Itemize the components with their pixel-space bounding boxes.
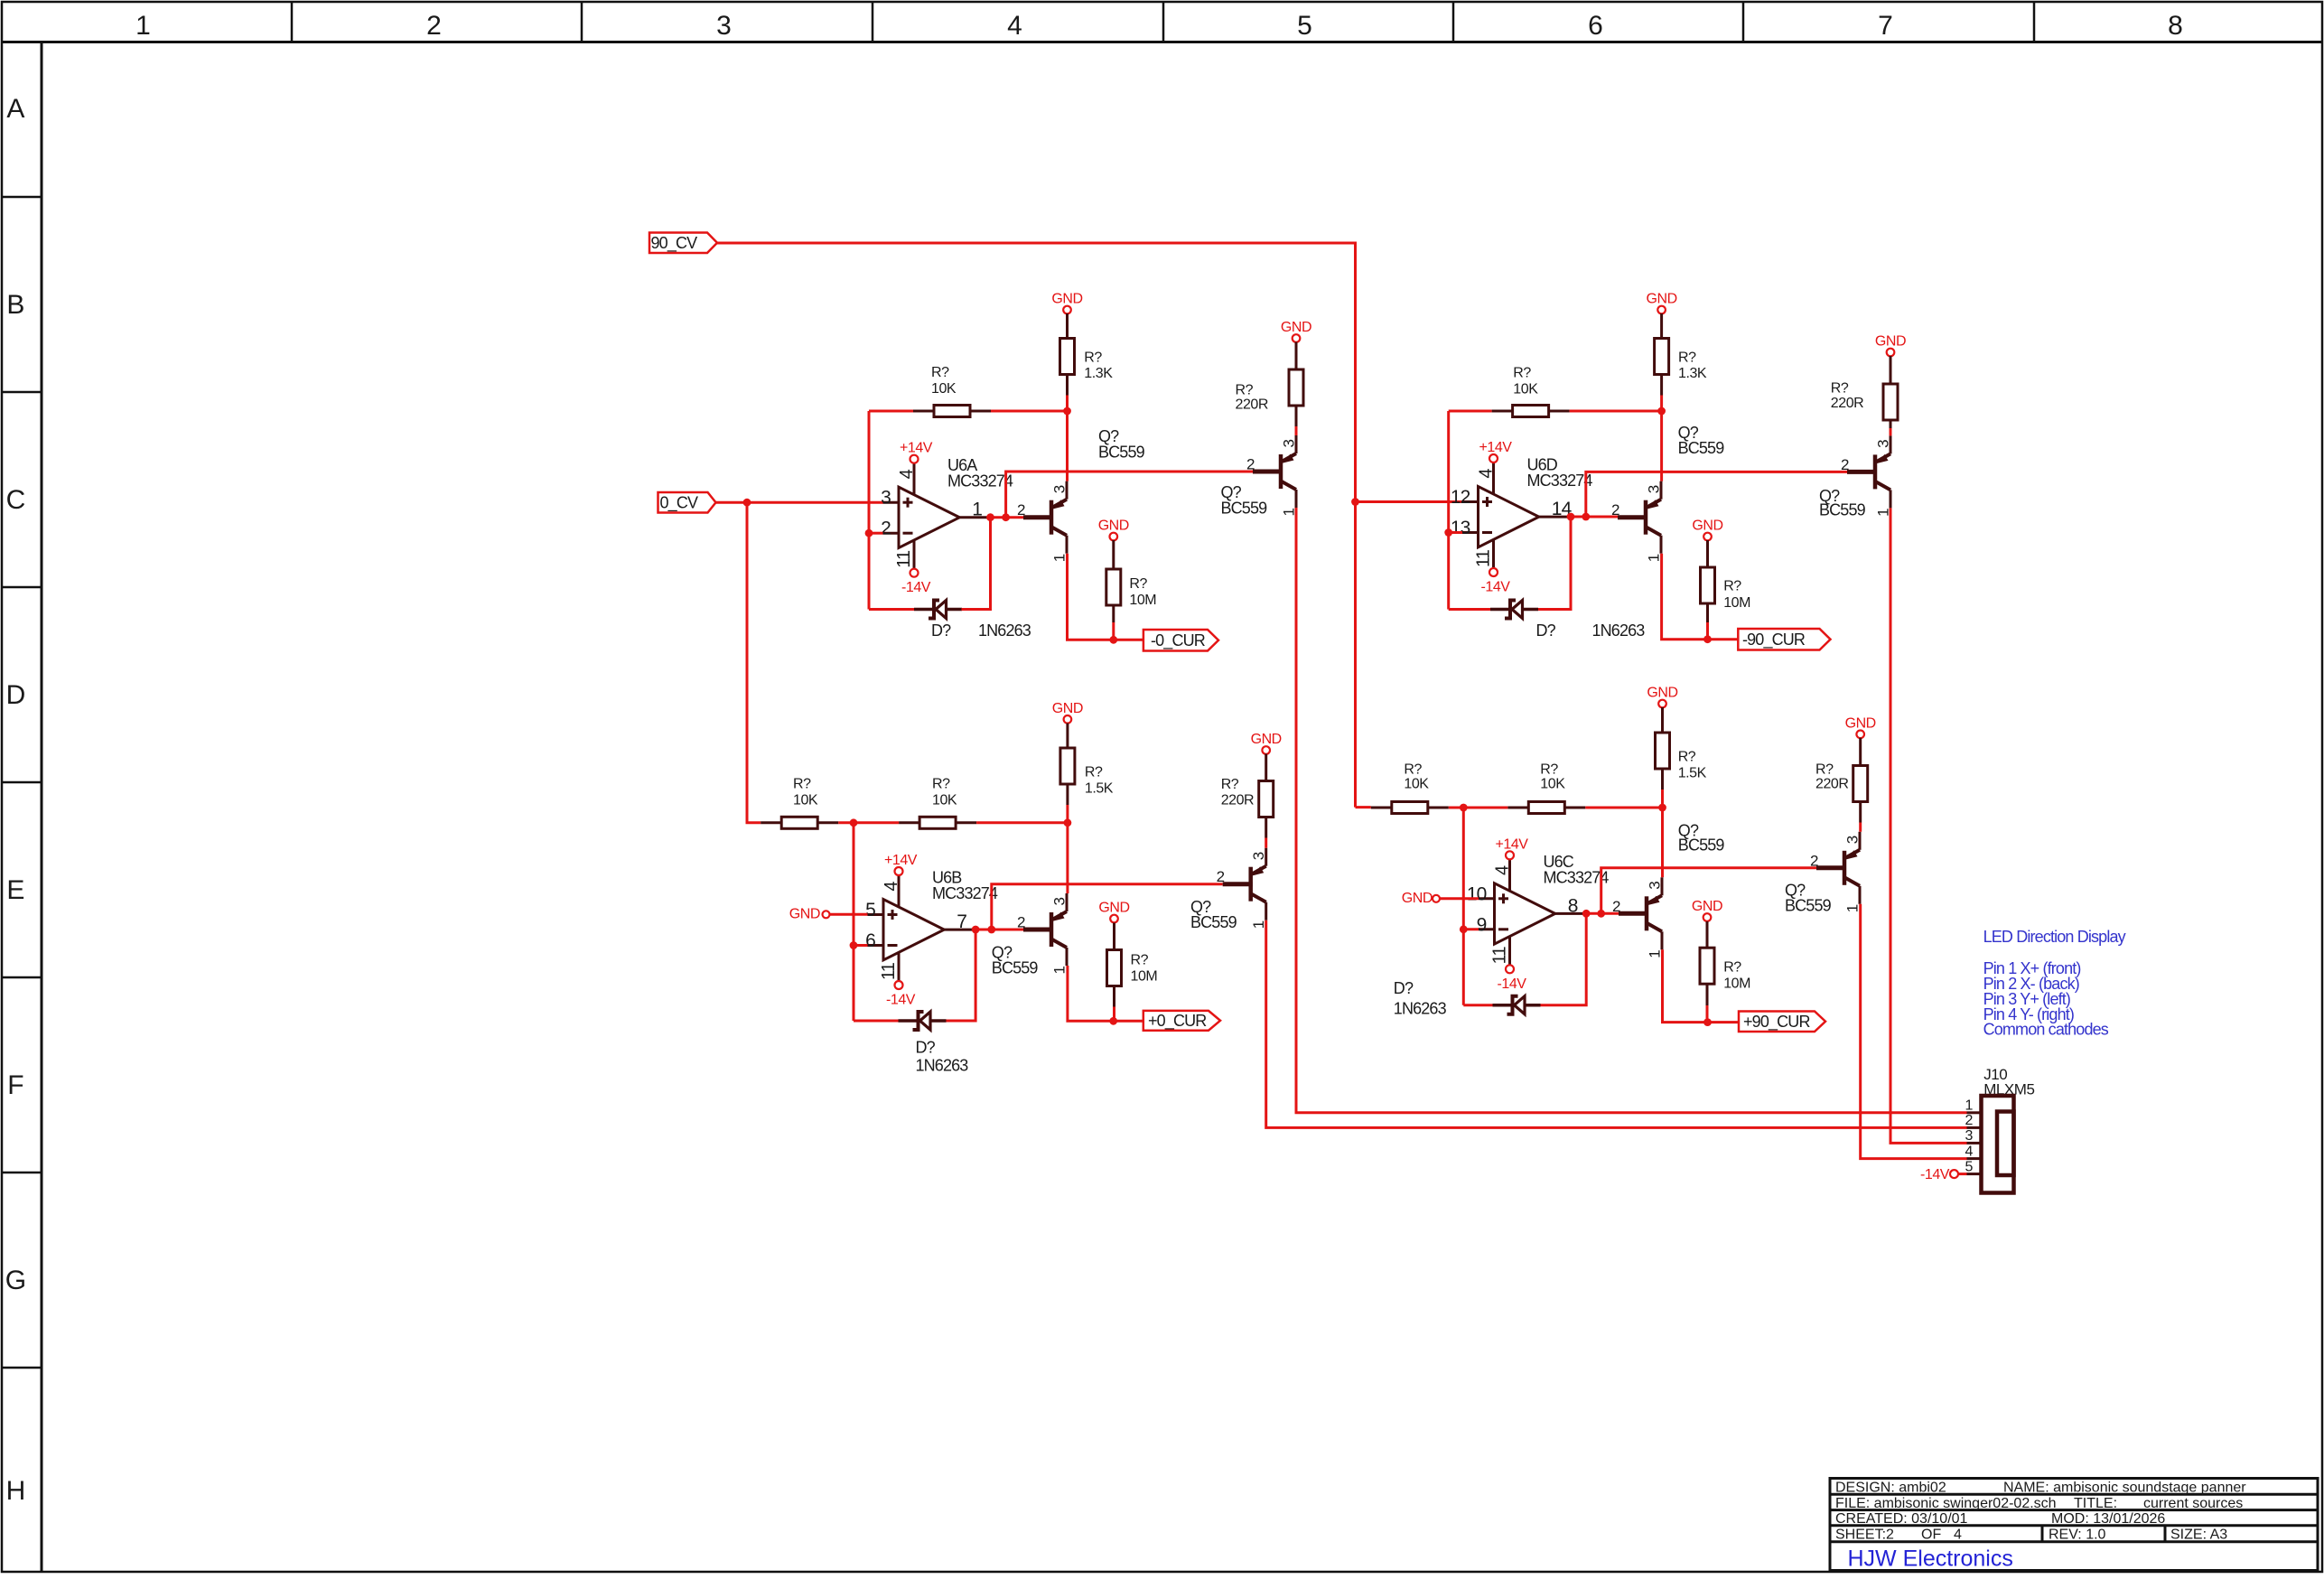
svg-text:BC559: BC559 <box>1785 897 1832 915</box>
svg-text:1: 1 <box>1647 950 1664 958</box>
svg-text:BC559: BC559 <box>1190 913 1237 931</box>
svg-text:3: 3 <box>1250 852 1267 860</box>
svg-text:R?: R? <box>1540 762 1558 778</box>
svg-text:11: 11 <box>894 550 914 568</box>
svg-text:LED Direction Display: LED Direction Display <box>1983 928 2126 946</box>
svg-text:R?: R? <box>1831 381 1849 397</box>
svg-text:220R: 220R <box>1815 777 1848 792</box>
svg-text:10M: 10M <box>1131 969 1158 985</box>
svg-text:3: 3 <box>1875 440 1892 448</box>
svg-text:3: 3 <box>1844 836 1862 844</box>
svg-text:10K: 10K <box>793 793 818 808</box>
svg-text:4: 4 <box>1965 1144 1974 1159</box>
svg-text:3: 3 <box>1647 882 1664 890</box>
svg-text:R?: R? <box>1404 762 1422 778</box>
svg-text:2: 2 <box>881 519 891 539</box>
svg-text:R?: R? <box>793 777 811 792</box>
svg-text:1: 1 <box>1051 966 1069 974</box>
svg-text:11: 11 <box>1490 947 1510 965</box>
svg-text:12: 12 <box>1451 487 1470 508</box>
svg-text:R?: R? <box>1085 765 1103 780</box>
svg-text:3: 3 <box>1646 485 1663 493</box>
svg-text:5: 5 <box>1965 1159 1974 1174</box>
svg-text:BC559: BC559 <box>1678 439 1725 457</box>
svg-text:R?: R? <box>1084 350 1102 366</box>
svg-text:10K: 10K <box>1513 382 1538 397</box>
svg-text:REV: 1.0: REV: 1.0 <box>2049 1528 2106 1543</box>
svg-text:1: 1 <box>972 500 982 520</box>
svg-text:BC559: BC559 <box>992 959 1039 977</box>
svg-text:GND: GND <box>789 907 820 922</box>
svg-text:SIZE: A3: SIZE: A3 <box>2170 1528 2227 1543</box>
svg-text:1: 1 <box>1844 904 1862 912</box>
svg-text:GND: GND <box>1251 732 1282 747</box>
svg-text:-14V: -14V <box>1498 976 1527 992</box>
svg-text:10M: 10M <box>1723 976 1750 992</box>
svg-text:R?: R? <box>1723 960 1741 976</box>
svg-text:FILE: ambisonic swinger02-02.s: FILE: ambisonic swinger02-02.sch <box>1835 1496 2057 1511</box>
svg-text:220R: 220R <box>1831 396 1863 411</box>
svg-text:R?: R? <box>1221 777 1239 792</box>
svg-text:H: H <box>6 1476 25 1506</box>
svg-text:MC33274: MC33274 <box>1527 472 1593 490</box>
svg-text:TITLE:: TITLE: <box>2074 1496 2117 1511</box>
svg-text:-14V: -14V <box>886 993 916 1008</box>
svg-text:1.3K: 1.3K <box>1084 366 1113 381</box>
svg-text:7: 7 <box>1878 11 1892 41</box>
svg-text:GND: GND <box>1098 901 1129 916</box>
svg-text:1: 1 <box>1051 554 1069 562</box>
svg-text:1: 1 <box>135 11 150 41</box>
svg-text:R?: R? <box>1513 366 1531 381</box>
svg-text:9: 9 <box>1477 914 1487 935</box>
svg-text:A: A <box>6 94 24 124</box>
svg-text:3: 3 <box>1965 1128 1974 1144</box>
svg-text:R?: R? <box>932 777 950 792</box>
svg-text:1N6263: 1N6263 <box>1592 621 1646 640</box>
svg-text:7: 7 <box>957 911 966 932</box>
svg-text:R?: R? <box>1131 953 1149 968</box>
svg-text:Common cathodes: Common cathodes <box>1983 1021 2109 1039</box>
svg-text:BC559: BC559 <box>1221 500 1268 518</box>
svg-text:220R: 220R <box>1236 397 1268 413</box>
svg-text:1: 1 <box>1965 1098 1974 1114</box>
svg-text:R?: R? <box>1815 762 1834 778</box>
svg-text:GND: GND <box>1051 292 1082 307</box>
svg-text:1N6263: 1N6263 <box>1394 1000 1447 1018</box>
svg-text:10K: 10K <box>1540 777 1565 792</box>
svg-text:2: 2 <box>426 11 441 41</box>
svg-text:2: 2 <box>1217 868 1225 885</box>
svg-text:R?: R? <box>1678 350 1696 366</box>
svg-text:1.3K: 1.3K <box>1678 366 1707 381</box>
svg-text:2: 2 <box>1017 914 1025 931</box>
svg-text:2: 2 <box>1246 456 1255 473</box>
svg-text:1: 1 <box>1646 554 1663 562</box>
svg-text:3: 3 <box>1051 485 1069 493</box>
svg-text:2: 2 <box>1611 501 1619 519</box>
svg-text:MC33274: MC33274 <box>1544 868 1610 886</box>
svg-text:C: C <box>6 485 25 515</box>
svg-text:GND: GND <box>1098 519 1129 534</box>
svg-text:220R: 220R <box>1221 793 1254 808</box>
svg-text:GND: GND <box>1845 715 1876 731</box>
svg-text:GND: GND <box>1692 519 1722 534</box>
svg-text:HJW Electronics: HJW Electronics <box>1848 1546 2013 1571</box>
svg-text:4: 4 <box>1954 1528 1962 1543</box>
svg-text:11: 11 <box>879 962 899 980</box>
svg-text:2: 2 <box>1841 456 1849 473</box>
svg-text:R?: R? <box>1723 579 1741 594</box>
svg-text:BC559: BC559 <box>1678 836 1725 855</box>
svg-text:GND: GND <box>1402 891 1433 906</box>
svg-text:3: 3 <box>881 488 891 509</box>
svg-text:GND: GND <box>1647 686 1677 701</box>
svg-text:GND: GND <box>1052 701 1083 716</box>
svg-text:4: 4 <box>1493 865 1513 875</box>
svg-text:D?: D? <box>931 621 951 640</box>
svg-text:-0_CUR: -0_CUR <box>1151 631 1206 650</box>
svg-text:+90_CUR: +90_CUR <box>1743 1013 1810 1032</box>
svg-text:10K: 10K <box>1404 777 1429 792</box>
svg-text:CREATED: 03/10/01: CREATED: 03/10/01 <box>1835 1511 1968 1527</box>
svg-text:10M: 10M <box>1129 593 1156 608</box>
svg-text:8: 8 <box>1568 895 1578 916</box>
svg-text:0_CV: 0_CV <box>660 494 698 513</box>
svg-text:+14V: +14V <box>884 853 918 868</box>
svg-text:BC559: BC559 <box>1098 444 1145 462</box>
svg-text:3: 3 <box>716 11 731 41</box>
svg-text:10K: 10K <box>931 381 957 397</box>
svg-text:MOD: 13/01/2026: MOD: 13/01/2026 <box>2051 1511 2165 1527</box>
svg-text:D?: D? <box>1394 979 1414 997</box>
svg-text:5: 5 <box>1297 11 1311 41</box>
svg-text:BC559: BC559 <box>1819 501 1866 519</box>
svg-text:+14V: +14V <box>1479 440 1512 455</box>
svg-text:R?: R? <box>1236 383 1254 398</box>
svg-text:NAME: ambisonic soundstage pa: NAME: ambisonic soundstage panner <box>2003 1481 2246 1496</box>
svg-text:-14V: -14V <box>1481 580 1511 595</box>
svg-text:5: 5 <box>865 900 875 920</box>
svg-text:D?: D? <box>916 1039 936 1057</box>
svg-text:GND: GND <box>1281 320 1311 335</box>
svg-text:MC33274: MC33274 <box>932 884 998 902</box>
svg-text:-14V: -14V <box>901 580 931 595</box>
svg-text:-14V: -14V <box>1920 1167 1950 1182</box>
svg-text:1N6263: 1N6263 <box>916 1057 969 1075</box>
svg-text:4: 4 <box>1007 11 1022 41</box>
svg-text:13: 13 <box>1451 518 1470 538</box>
svg-text:1.5K: 1.5K <box>1678 766 1707 781</box>
svg-text:11: 11 <box>1474 549 1494 567</box>
svg-text:6: 6 <box>1588 11 1602 41</box>
svg-text:GND: GND <box>1646 292 1676 307</box>
svg-text:+14V: +14V <box>900 441 933 456</box>
svg-text:R?: R? <box>1129 576 1147 592</box>
svg-text:D: D <box>6 680 25 710</box>
svg-text:SHEET:2: SHEET:2 <box>1835 1528 1894 1543</box>
svg-text:2: 2 <box>1810 852 1818 869</box>
svg-text:3: 3 <box>1281 439 1298 447</box>
svg-text:10K: 10K <box>932 793 957 808</box>
svg-text:+0_CUR: +0_CUR <box>1148 1012 1207 1031</box>
svg-text:4: 4 <box>897 469 917 479</box>
svg-text:R?: R? <box>1678 750 1696 765</box>
svg-text:6: 6 <box>865 930 875 951</box>
svg-text:8: 8 <box>2168 11 2182 41</box>
svg-text:MC33274: MC33274 <box>947 472 1013 491</box>
svg-text:1.5K: 1.5K <box>1085 781 1114 797</box>
svg-text:3: 3 <box>1051 897 1069 905</box>
svg-text:10M: 10M <box>1723 595 1750 611</box>
svg-text:GND: GND <box>1692 899 1722 914</box>
svg-text:B: B <box>6 290 23 320</box>
svg-text:2: 2 <box>1965 1113 1974 1128</box>
svg-text:E: E <box>6 875 23 905</box>
svg-text:D?: D? <box>1536 621 1556 640</box>
svg-text:OF: OF <box>1921 1528 1941 1543</box>
svg-text:GND: GND <box>1875 334 1906 350</box>
svg-text:10: 10 <box>1467 883 1487 904</box>
svg-text:1N6263: 1N6263 <box>978 621 1031 640</box>
svg-text:current sources: current sources <box>2143 1496 2243 1511</box>
svg-text:90_CV: 90_CV <box>651 234 698 253</box>
svg-text:DESIGN: ambi02: DESIGN: ambi02 <box>1835 1481 1946 1496</box>
svg-text:R?: R? <box>931 365 949 380</box>
svg-text:G: G <box>5 1266 26 1295</box>
svg-text:2: 2 <box>1612 898 1620 915</box>
svg-text:-90_CUR: -90_CUR <box>1742 631 1806 649</box>
svg-text:4: 4 <box>1477 469 1497 479</box>
svg-text:4: 4 <box>882 882 901 892</box>
svg-text:2: 2 <box>1017 501 1025 519</box>
svg-text:+14V: +14V <box>1495 836 1528 852</box>
svg-text:F: F <box>7 1070 23 1100</box>
